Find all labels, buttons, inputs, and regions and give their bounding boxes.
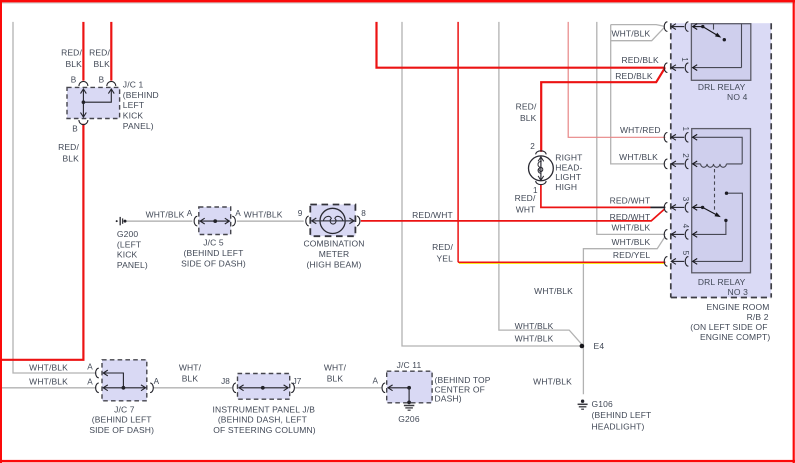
svg-text:WHT/: WHT/ <box>179 362 202 372</box>
svg-text:8: 8 <box>361 209 366 218</box>
junction connector J/C 7 <box>102 360 147 401</box>
relay NO 3 pin 3 entry arcs and arrows <box>664 203 688 213</box>
svg-text:RED/YEL: RED/YEL <box>613 250 651 260</box>
wire WHT/BLK from top to node E4 <box>402 22 580 346</box>
svg-text:BLK: BLK <box>327 374 344 384</box>
relay NO 3 internal coil and contacts <box>693 137 743 261</box>
svg-text:WHT/BLK: WHT/BLK <box>611 237 650 247</box>
svg-text:WHT/RED: WHT/RED <box>620 125 661 135</box>
svg-text:INSTRUMENT PANEL J/B: INSTRUMENT PANEL J/B <box>213 404 316 414</box>
svg-text:RED/: RED/ <box>89 48 110 58</box>
J/C 5 connector arc pin A left <box>194 216 197 226</box>
svg-text:J8: J8 <box>221 377 230 386</box>
svg-text:A: A <box>235 209 241 218</box>
page border traced circuit highlight <box>0 3 795 4</box>
svg-text:J/C 1: J/C 1 <box>123 80 144 90</box>
svg-text:COMBINATION: COMBINATION <box>304 239 365 249</box>
svg-text:WHT/BLK: WHT/BLK <box>533 377 572 387</box>
svg-text:1: 1 <box>681 127 690 132</box>
svg-text:G200: G200 <box>117 229 139 239</box>
relay NO 3 pin 1 entry arcs and arrows <box>664 133 688 143</box>
wire WHT/BLK from top to node E4 (second) <box>499 22 582 345</box>
wire WHT/BLK ground G200 to J/C 5 pin A <box>126 220 192 222</box>
svg-text:WHT/BLK: WHT/BLK <box>619 152 658 162</box>
svg-text:PANEL): PANEL) <box>123 121 154 131</box>
svg-text:E4: E4 <box>594 341 605 351</box>
relay NO 4 internal contact <box>693 24 742 68</box>
svg-text:RED/BLK: RED/BLK <box>615 71 653 81</box>
J/C 7 connector arc pin A lower <box>96 383 99 393</box>
svg-text:BLK: BLK <box>93 59 110 69</box>
J/C 1 connector arc pin B top-right <box>107 81 116 86</box>
svg-text:J/C 7: J/C 7 <box>114 404 135 414</box>
svg-text:HIGH: HIGH <box>555 182 577 192</box>
instrument panel J/B connector <box>238 374 290 400</box>
svg-text:WHT/BLK: WHT/BLK <box>29 362 68 372</box>
svg-text:A: A <box>87 363 93 372</box>
svg-text:B: B <box>71 76 77 85</box>
ground G206 symbol <box>404 406 414 411</box>
svg-text:G106: G106 <box>592 399 614 409</box>
svg-text:(BEHIND LEFT: (BEHIND LEFT <box>92 415 152 425</box>
junction connector J/C 11 <box>387 371 432 403</box>
J/C 7 connector arc pin A right <box>150 383 153 393</box>
svg-text:METER: METER <box>319 249 350 259</box>
wire WHT/RED from top to relay NO 3 pin 1 <box>568 22 665 137</box>
svg-text:DRL RELAY: DRL RELAY <box>698 82 746 92</box>
J/C 7 connector arc pin A upper <box>96 368 99 378</box>
svg-text:NO 3: NO 3 <box>728 287 749 297</box>
svg-text:RED/WHT: RED/WHT <box>610 212 651 222</box>
svg-text:BLK: BLK <box>65 59 82 69</box>
svg-text:A: A <box>372 377 378 386</box>
combination meter connector arc pin 9 <box>306 216 309 226</box>
wire WHT/BLK J/C 5 to combination meter pin 9 <box>237 220 304 222</box>
J/C 5 internal bus arrows <box>200 218 229 224</box>
J/C 1 internal bus arrows <box>81 89 115 117</box>
svg-text:RED/WHT: RED/WHT <box>610 195 651 205</box>
svg-text:WHT/BLK: WHT/BLK <box>146 209 185 219</box>
bulb connector arc pin 1 bottom <box>536 181 546 185</box>
svg-text:LIGHT: LIGHT <box>555 172 581 182</box>
svg-text:(BEHIND LEFT: (BEHIND LEFT <box>184 248 244 258</box>
svg-text:A: A <box>187 209 193 218</box>
instrument panel J/B internal bus arrows <box>239 385 288 391</box>
svg-text:OF STEERING COLUMN): OF STEERING COLUMN) <box>213 425 316 435</box>
svg-text:KICK: KICK <box>123 111 144 121</box>
combination meter connector arc pin 8 <box>357 216 360 226</box>
junction connector J/C 5 <box>199 207 231 235</box>
svg-text:4: 4 <box>681 224 690 229</box>
svg-text:WHT/BLK: WHT/BLK <box>29 377 68 387</box>
relay NO 3 pin 5 entry arcs and arrows <box>664 257 688 267</box>
svg-text:J/C 5: J/C 5 <box>203 238 224 248</box>
svg-text:2: 2 <box>530 142 535 151</box>
svg-text:WHT: WHT <box>516 205 536 215</box>
svg-text:9: 9 <box>298 209 303 218</box>
wire WHT/BLK from top to J/C 7 pin A <box>13 22 96 373</box>
wire RED/BLK J/C 1 pin B down and left to page border <box>1 124 83 360</box>
svg-text:RED/: RED/ <box>61 48 82 58</box>
svg-text:B: B <box>72 125 78 134</box>
svg-text:B: B <box>99 76 105 85</box>
J/C 11 internal arrow to ground G206 <box>388 385 409 403</box>
svg-text:BLK: BLK <box>182 374 199 384</box>
svg-text:5: 5 <box>681 251 690 256</box>
instrument panel J/B connector arc pin J8 <box>233 383 236 393</box>
svg-text:DRL RELAY: DRL RELAY <box>698 277 746 287</box>
wire WHT/BLK from top to relay NO 3 pin 4 <box>597 22 666 235</box>
wire RED/BLK from top to relay NO 4 pin (upper feed) <box>377 22 666 68</box>
wire RED/BLK from top to J/C 1 pin B (right) <box>110 22 112 81</box>
bulb connector arc pin 2 top <box>536 151 546 155</box>
svg-text:WHT/BLK: WHT/BLK <box>515 334 554 344</box>
svg-text:R/B 2: R/B 2 <box>747 312 769 322</box>
J/C 11 connector arc pin A <box>382 383 385 393</box>
relay NO 4 pin 1 entry arcs and arrows <box>664 22 688 32</box>
svg-text:G206: G206 <box>398 414 420 424</box>
svg-text:KICK: KICK <box>117 250 138 260</box>
svg-text:NO 4: NO 4 <box>727 92 748 102</box>
svg-text:J7: J7 <box>293 377 302 386</box>
svg-text:RED/BLK: RED/BLK <box>621 55 659 65</box>
svg-text:(HIGH BEAM): (HIGH BEAM) <box>306 259 361 269</box>
J/C 5 connector arc pin A right <box>232 216 235 226</box>
svg-text:(ON LEFT SIDE OF: (ON LEFT SIDE OF <box>690 322 767 332</box>
svg-text:RED/WHT: RED/WHT <box>412 210 453 220</box>
svg-text:BLK: BLK <box>62 154 79 164</box>
svg-text:RED/: RED/ <box>432 242 453 252</box>
wire WHT/BLK J/C 7 to instrument panel J/B pin J8 <box>153 387 232 389</box>
ground G200 symbol <box>116 217 127 225</box>
J/C 1 connector arc pin B top-left <box>79 81 88 86</box>
svg-text:WHT/BLK: WHT/BLK <box>611 29 650 39</box>
svg-text:WHT/BLK: WHT/BLK <box>534 286 573 296</box>
svg-text:DASH): DASH) <box>435 394 462 404</box>
relay NO 4 pin 2 entry arcs and arrows <box>664 63 688 73</box>
wire WHT/BLK instrument panel J/B pin J7 to J/C 11 pin A <box>295 387 381 389</box>
svg-text:(BEHIND: (BEHIND <box>123 90 159 100</box>
ground G106 symbol <box>578 400 588 410</box>
svg-text:YEL: YEL <box>436 254 453 264</box>
instrument panel J/B connector arc pin J7 <box>291 383 294 393</box>
high beam indicator bulb symbol <box>312 208 354 233</box>
svg-text:RED/: RED/ <box>516 102 537 112</box>
svg-text:WHT/BLK: WHT/BLK <box>244 209 283 219</box>
svg-text:RED/: RED/ <box>58 142 79 152</box>
svg-text:1: 1 <box>680 57 689 62</box>
wire RED/BLK relay NO 4 pin to right headlight high pin 2 <box>541 68 665 152</box>
junction connector J/C 1 <box>67 87 120 118</box>
engine room R/B 2 junction block (dashed box) <box>671 23 771 297</box>
svg-text:PANEL): PANEL) <box>117 260 148 270</box>
svg-text:RIGHT: RIGHT <box>555 152 582 162</box>
svg-text:WHT/BLK: WHT/BLK <box>611 222 650 232</box>
svg-text:BLK: BLK <box>520 113 537 123</box>
svg-text:RED/: RED/ <box>515 193 536 203</box>
combination meter (high beam) box <box>310 205 355 237</box>
J/C 7 internal bus arrows <box>103 370 145 391</box>
svg-text:HEAD-: HEAD- <box>555 162 582 172</box>
relay NO 3 pin 4 entry arcs and arrows <box>664 230 688 240</box>
relay NO 3 pin 2 entry arcs and arrows <box>664 159 688 169</box>
wire RED/BLK from top to J/C 1 pin B (left) <box>82 22 84 81</box>
svg-text:(BEHIND LEFT: (BEHIND LEFT <box>592 410 652 420</box>
relay DRL RELAY NO 4 (box) <box>691 24 750 81</box>
wire RED/WHT combination meter pin 8 to relay NO 3 pin 3 <box>361 209 665 221</box>
wire RED/WHT right headlight high pin 1 to relay NO 3 pin 3 <box>541 185 651 208</box>
node E4 (junction dot) <box>580 344 585 349</box>
svg-text:ENGINE ROOM: ENGINE ROOM <box>706 302 769 312</box>
svg-text:SIDE OF DASH): SIDE OF DASH) <box>181 258 246 268</box>
relay DRL RELAY NO 3 (box) <box>692 129 751 273</box>
wire WHT/BLK from page left to J/C 7 pin A (second) <box>1 387 96 389</box>
wire WHT/BLK relay NO 4 pin 1 to relay NO 3 pin 2 (with label flag) <box>611 25 666 164</box>
svg-text:2: 2 <box>681 153 690 158</box>
svg-text:SIDE OF DASH): SIDE OF DASH) <box>89 425 154 435</box>
svg-text:WHT/BLK: WHT/BLK <box>515 321 554 331</box>
svg-text:HEADLIGHT): HEADLIGHT) <box>592 421 645 431</box>
svg-text:A: A <box>87 377 93 386</box>
wire WHT/BLK relay NO 3 pin 4 down to node E4 and ground G106 <box>583 236 665 394</box>
svg-text:(LEFT: (LEFT <box>117 239 141 249</box>
svg-text:LEFT: LEFT <box>123 100 144 110</box>
svg-text:J/C 11: J/C 11 <box>397 360 422 370</box>
svg-text:A: A <box>154 377 160 386</box>
svg-text:WHT/: WHT/ <box>324 362 347 372</box>
wire RED/YEL from top to relay NO 3 pin 5 (yellow stripe) <box>459 262 665 264</box>
wire segment (black) into relay NO 3 pin 3 <box>651 206 666 208</box>
bulb filament <box>538 161 543 173</box>
J/C 1 connector arc pin B bottom <box>79 120 88 125</box>
svg-text:3: 3 <box>681 197 690 202</box>
right headlight high bulb <box>529 151 554 185</box>
svg-text:(BEHIND DASH, LEFT: (BEHIND DASH, LEFT <box>218 415 307 425</box>
svg-text:ENGINE COMPT): ENGINE COMPT) <box>700 332 770 342</box>
